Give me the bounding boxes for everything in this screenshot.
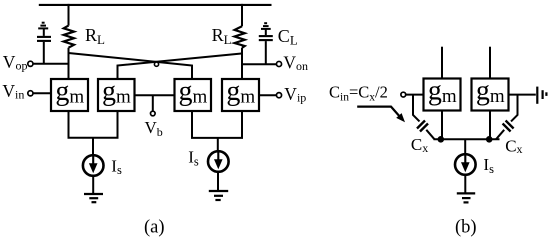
bottom bus (b) <box>434 138 500 140</box>
AC ground right (b) <box>537 87 546 104</box>
output wire right (b) <box>509 94 536 96</box>
tail stub left <box>92 138 94 156</box>
wire IS1 to ground <box>92 176 94 194</box>
AC-ground symbol above CL <box>261 23 271 29</box>
junction dot left <box>438 136 445 143</box>
terminal input (b) <box>401 92 406 97</box>
ground GND3 <box>457 193 475 202</box>
svg-text:Cin=Cx/2: Cin=Cx/2 <box>329 83 388 104</box>
crossover hop <box>154 62 158 66</box>
capacitor CL (left) <box>37 28 51 63</box>
cross-coupling wire VON node to U2 <box>118 54 242 80</box>
capacitor Cx right <box>496 115 518 139</box>
annotation arrow <box>357 107 405 123</box>
wire IS2 to ground <box>217 172 219 191</box>
stub U5 bottom <box>441 111 443 140</box>
resistor RL right <box>235 4 245 79</box>
current source IS3 <box>455 154 476 175</box>
tail stub right <box>217 138 219 151</box>
gm cell U6 <box>472 75 509 110</box>
V_b stub <box>152 95 154 111</box>
gm cell U3 <box>175 76 212 111</box>
svg-text:(b): (b) <box>455 218 477 238</box>
capacitor Cx left <box>413 115 435 139</box>
ground GND1 <box>84 194 103 202</box>
input wire (b) <box>406 94 424 96</box>
gm cell U1 <box>51 76 88 111</box>
wire down to Cx left <box>412 95 414 116</box>
V_ip wire <box>259 94 276 96</box>
tail bus left <box>69 111 118 138</box>
wire U6 top stub <box>489 47 491 79</box>
wire U5 top stub <box>441 47 443 79</box>
gm cell U2 <box>98 76 135 111</box>
wire IS3 to ground <box>464 175 466 193</box>
stub U6 bottom <box>489 111 491 140</box>
resistor RL left <box>64 4 74 79</box>
current source IS1 <box>83 155 104 176</box>
terminal V_ip <box>276 93 281 98</box>
terminal V_in <box>28 91 33 96</box>
tail stub (b) <box>464 139 466 154</box>
junction dot right <box>486 136 493 143</box>
cross-coupling wire VOP node to U3 <box>69 53 193 79</box>
top supply rail <box>39 4 272 6</box>
gm cell U4 <box>222 76 259 111</box>
wire down to Cx right <box>517 95 519 116</box>
terminal V_op <box>28 61 33 66</box>
terminal V_on <box>276 61 281 66</box>
ground GND2 <box>209 191 228 200</box>
current source IS2 <box>208 151 229 172</box>
V_in input wire <box>33 92 51 94</box>
capacitor CL (right) <box>259 29 273 64</box>
gm cell U5 <box>424 75 461 110</box>
V_op output wire <box>33 63 69 65</box>
AC-ground symbol above left cap <box>38 23 48 29</box>
tail bus right <box>192 111 242 138</box>
terminal V_b <box>151 111 156 116</box>
V_on wire <box>242 63 276 65</box>
V_b net wire <box>135 94 175 96</box>
svg-text:(a): (a) <box>144 217 165 237</box>
